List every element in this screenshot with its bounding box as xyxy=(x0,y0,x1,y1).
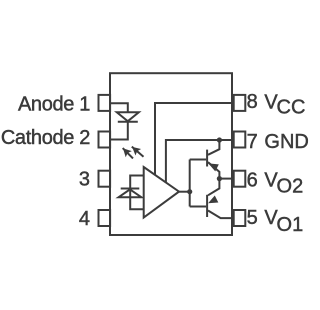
svg-text:3: 3 xyxy=(79,169,90,191)
svg-text:VO2: VO2 xyxy=(264,169,303,197)
svg-text:GND: GND xyxy=(264,131,308,153)
svg-text:7: 7 xyxy=(247,131,258,153)
svg-text:8: 8 xyxy=(247,91,258,113)
svg-text:Cathode 2: Cathode 2 xyxy=(1,127,90,149)
svg-text:6: 6 xyxy=(247,169,258,191)
svg-text:Anode 1: Anode 1 xyxy=(18,94,90,116)
svg-text:VO1: VO1 xyxy=(264,207,303,236)
svg-text:5: 5 xyxy=(247,207,258,229)
svg-text:VCC: VCC xyxy=(264,91,305,118)
svg-text:4: 4 xyxy=(79,208,90,230)
